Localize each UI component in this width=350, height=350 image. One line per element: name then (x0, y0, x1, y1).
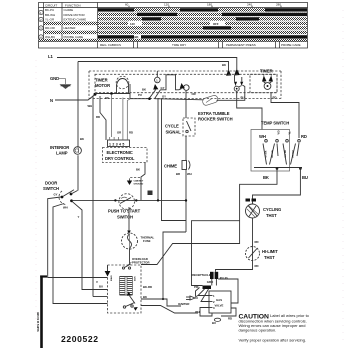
chart row 2 bars (drive motor) (98, 13, 307, 16)
bottom hatch strip (39, 39, 308, 42)
svg-text:BR-WH: BR-WH (45, 13, 55, 17)
svg-text:180: 180 (207, 2, 212, 6)
receptacle and plug (192, 272, 229, 289)
svg-text:RD: RD (255, 264, 259, 268)
svg-text:2200522: 2200522 (61, 334, 99, 344)
electronic dry control EDC (103, 137, 148, 163)
svg-text:TIMER: TIMER (260, 69, 273, 74)
cycle signal lamp (165, 118, 195, 136)
wires receptacle to valve and igniter (195, 279, 238, 325)
label BK (142, 88, 146, 92)
svg-text:TEMP SWITCH: TEMP SWITCH (261, 121, 289, 126)
svg-text:OR: OR (192, 92, 196, 96)
wire N to timer motor junction (55, 95, 95, 101)
svg-text:BK-RD: BK-RD (143, 285, 152, 289)
svg-text:BK: BK (222, 63, 226, 67)
wire timer to temp switch RD (271, 93, 299, 138)
svg-text:FUNCTION: FUNCTION (65, 3, 81, 7)
wire mid loop (157, 99, 186, 300)
svg-text:CYCLE: CYCLE (165, 124, 179, 129)
svg-text:PLUG: PLUG (220, 276, 229, 280)
label RD (273, 96, 277, 100)
temp switch contacts (254, 143, 302, 170)
svg-text:ROCKER SWITCH: ROCKER SWITCH (198, 117, 233, 122)
svg-text:OY: OY (162, 95, 166, 99)
svg-text:Y: Y (78, 215, 80, 219)
svg-text:OR: OR (117, 131, 121, 135)
wire contact to temp switch (237, 91, 262, 129)
chart row 4 marks (98, 22, 307, 26)
circuit/function row labels (45, 8, 86, 39)
timer sequence chart table frame (39, 3, 308, 49)
label PU (138, 93, 142, 97)
circled circuit numbers 1-4 (39, 10, 43, 39)
svg-text:MOTOR: MOTOR (95, 83, 110, 88)
svg-text:PUSH TO START: PUSH TO START (108, 209, 141, 214)
wire cycle signal chime drop (185, 91, 187, 232)
svg-text:VIO: VIO (278, 130, 281, 134)
svg-text:280: 280 (276, 2, 281, 6)
chime (164, 161, 192, 177)
chart row 7 bars (probe care) (98, 35, 307, 39)
timer sub-box (250, 74, 277, 92)
node L1 (48, 54, 53, 59)
wire door switch lower pole down (53, 204, 108, 304)
svg-text:PU: PU (138, 93, 142, 97)
timer contact 2 (179, 83, 189, 90)
svg-text:N: N (50, 98, 53, 103)
svg-text:VALVE: VALVE (215, 304, 224, 308)
svg-text:BK-PU: BK-PU (45, 8, 54, 12)
svg-text:BU: BU (302, 175, 308, 180)
svg-text:WHITE W 3A/10B: WHITE W 3A/10B (37, 312, 40, 332)
svg-text:RD: RD (273, 96, 277, 100)
svg-text:EXTEND CHIME: EXTEND CHIME (64, 17, 87, 21)
wire lamp drop (77, 62, 79, 191)
svg-text:120: 120 (164, 2, 169, 6)
svg-text:GY: GY (54, 193, 58, 197)
door switch S1 (43, 181, 78, 210)
cycle label band (100, 42, 301, 49)
label WH (88, 104, 93, 108)
wires EDC feeds (112, 95, 134, 137)
svg-text:BU: BU (99, 285, 103, 289)
svg-text:WH: WH (88, 104, 93, 108)
svg-text:THST: THST (264, 255, 275, 260)
svg-text:RD: RD (96, 115, 100, 119)
svg-text:WH: WH (259, 134, 266, 139)
igniter (178, 296, 195, 306)
timer motor M1 (95, 76, 129, 93)
svg-text:THST: THST (266, 213, 277, 218)
svg-text:DRIVE MOTOR: DRIVE MOTOR (64, 13, 86, 17)
svg-text:RD: RD (255, 240, 259, 244)
wire L1 feed (57, 58, 237, 70)
junction EDC tap (110, 92, 113, 95)
cabinet ground bracket (37, 276, 47, 349)
svg-text:RD: RD (301, 134, 307, 139)
timer contact 5 in timer box (262, 74, 273, 89)
svg-text:RD-OR: RD-OR (45, 26, 56, 30)
svg-text:WH-BU: WH-BU (45, 35, 55, 39)
svg-text:CYCLING: CYCLING (263, 207, 281, 212)
wire bump jumper (161, 75, 180, 90)
svg-text:140: 140 (130, 22, 135, 26)
svg-text:SWITCH: SWITCH (117, 215, 133, 220)
svg-text:PERMANENT PRESS: PERMANENT PRESS (226, 43, 256, 47)
extra tumble rocker switch S2 (198, 95, 233, 122)
svg-text:CABINET: CABINET (134, 180, 144, 183)
svg-text:L1: L1 (48, 54, 53, 59)
junction TM (94, 93, 97, 96)
svg-text:SWITCH: SWITCH (43, 186, 59, 191)
label TIMER (260, 69, 273, 74)
ground GND (50, 76, 72, 89)
arrow into timer contact (226, 69, 240, 76)
svg-text:PROBE CARE: PROBE CARE (64, 35, 84, 39)
svg-text:HEATER: HEATER (64, 26, 77, 30)
svg-text:WH: WH (63, 206, 68, 210)
svg-text:WH-RD: WH-RD (285, 150, 287, 158)
wire door switch Y drop (73, 202, 108, 290)
svg-text:TIMER: TIMER (95, 78, 108, 83)
chart time scale numbers (125, 2, 281, 7)
svg-text:RD: RD (129, 131, 133, 135)
svg-text:LAMP: LAMP (56, 151, 68, 156)
overload protector (122, 257, 149, 269)
svg-text:BK: BK (80, 137, 84, 141)
svg-text:RECEPTACLE: RECEPTACLE (192, 273, 211, 277)
svg-text:dangerous operation.: dangerous operation. (239, 328, 277, 333)
chart row 6 bars (98, 31, 307, 34)
gas valve V1 (209, 291, 231, 313)
wire BK to motor centrifugal switch (141, 168, 277, 265)
wire thermal fuse to motor (129, 248, 131, 265)
svg-text:RD-BU: RD-BU (293, 150, 295, 157)
svg-text:BK: BK (142, 88, 146, 92)
svg-text:PROBE CARE: PROBE CARE (281, 43, 301, 47)
drive motor M2 (96, 265, 152, 313)
svg-text:BU: BU (212, 321, 216, 325)
svg-text:Verify proper operation after: Verify proper operation after servicing. (239, 338, 307, 343)
wire cycling to hi-limit (253, 218, 259, 247)
caution note (239, 313, 310, 343)
label BK (80, 137, 84, 141)
wire rocker to contact (217, 85, 245, 100)
svg-text:PROTECTOR: PROTECTOR (132, 261, 150, 265)
node N (50, 98, 53, 103)
svg-text:CHIME: CHIME (64, 8, 74, 12)
wire door switch left pole down (48, 197, 108, 278)
wire door switch to push-to-start (73, 199, 186, 201)
svg-text:PRI: PRI (194, 285, 199, 289)
svg-text:240: 240 (247, 2, 252, 6)
wire rocker bus (155, 99, 204, 100)
wire EDC output lead (136, 163, 145, 201)
svg-text:BK: BK (105, 96, 109, 100)
svg-text:GND: GND (50, 76, 59, 81)
svg-text:BK-WH: BK-WH (272, 150, 274, 158)
push to start switch S3 (108, 194, 141, 220)
svg-text:GRD: GRD (207, 280, 213, 284)
cabinet ground symbol (127, 178, 144, 186)
label OR (192, 92, 196, 96)
svg-text:RD: RD (228, 317, 232, 321)
label BK (105, 96, 109, 100)
chart row 1 bars (chime) (98, 8, 307, 11)
svg-text:CHIME: CHIME (164, 164, 177, 169)
wire push-start to thermal fuse (127, 207, 131, 234)
svg-text:SIGNAL: SIGNAL (166, 130, 182, 135)
svg-text:GAS: GAS (216, 298, 222, 302)
motor ground arrow (105, 265, 111, 277)
svg-text:INTERIOR: INTERIOR (50, 145, 69, 150)
label BK on L1 drop (222, 63, 226, 67)
svg-text:BK: BK (143, 295, 147, 299)
wire motor step (130, 84, 149, 99)
timer contact 4 (234, 76, 243, 92)
svg-text:GROUND: GROUND (134, 184, 144, 186)
wire N bus inside timer (95, 93, 130, 95)
svg-text:DRY CONTROL: DRY CONTROL (105, 156, 135, 161)
cycling thermostat (246, 199, 282, 219)
svg-text:BK: BK (135, 35, 139, 39)
timer contact 1 (148, 71, 160, 100)
chart row 5 bars (heater) (98, 26, 307, 29)
label GY (161, 86, 165, 90)
svg-text:BR: BR (176, 172, 180, 176)
label BK (263, 175, 269, 180)
label PU (241, 96, 245, 100)
wire grd branch (192, 221, 240, 286)
svg-text:CIRCUIT: CIRCUIT (45, 3, 57, 7)
svg-text:ELECTRONIC: ELECTRONIC (107, 150, 133, 155)
svg-text:GY-BK: GY-BK (266, 150, 268, 157)
hatched fill in left cells (44, 22, 97, 34)
svg-text:DOOR: DOOR (45, 181, 57, 186)
svg-text:PU: PU (241, 96, 245, 100)
table header text (45, 3, 81, 7)
svg-text:MAIN: MAIN (110, 275, 113, 281)
svg-text:HI-LIMIT: HI-LIMIT (262, 249, 278, 254)
wire WH neutral drop (93, 96, 108, 297)
svg-text:TIME DRY: TIME DRY (172, 43, 186, 47)
svg-text:WH: WH (187, 172, 192, 176)
label BU (302, 175, 308, 180)
relay contact block (148, 191, 153, 196)
wire RD jog to EDC (100, 96, 106, 140)
label Y (78, 215, 80, 219)
wire console feed (78, 62, 229, 71)
svg-text:BK: BK (136, 168, 140, 172)
svg-text:EXTRA TUMBLE: EXTRA TUMBLE (198, 111, 230, 116)
svg-text:REG. FABRICS: REG. FABRICS (100, 43, 121, 47)
svg-text:60: 60 (125, 2, 129, 6)
label OY (162, 95, 166, 99)
svg-text:Label all wires prior to: Label all wires prior to (270, 313, 310, 318)
svg-text:YL: YL (289, 131, 292, 135)
timer assembly dashed strip (89, 71, 281, 99)
temp switch assembly (251, 121, 307, 172)
svg-text:BK: BK (263, 175, 269, 180)
hi-limit thermostat (246, 247, 279, 261)
wire BU to cycling thermostat (253, 168, 301, 205)
svg-text:IGNITER: IGNITER (178, 302, 189, 306)
svg-text:12345: 12345 (109, 142, 126, 146)
chart row 3 bars (98, 17, 307, 20)
wire motor to igniter (141, 299, 198, 313)
label RD (96, 115, 100, 119)
thermal fuse F1 (122, 233, 155, 249)
wire hi-limit to receptacle (216, 261, 259, 272)
svg-text:OFF: OFF (213, 22, 219, 26)
part number 2200522 (61, 334, 99, 344)
svg-text:V: V (96, 280, 98, 284)
svg-text:AUX: AUX (134, 276, 137, 281)
svg-text:FUSE: FUSE (143, 239, 151, 243)
interior lamp L2 (50, 145, 81, 156)
svg-text:YL-OR: YL-OR (45, 17, 55, 21)
